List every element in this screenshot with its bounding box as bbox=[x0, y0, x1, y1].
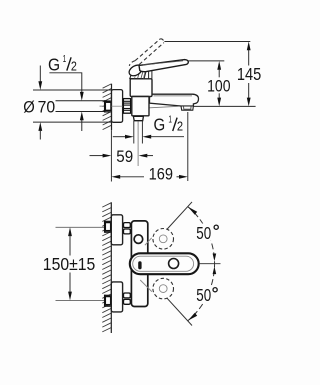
svg-text:2: 2 bbox=[177, 119, 183, 134]
aerator cup bbox=[181, 106, 193, 110]
wall face line (plan view) bbox=[110, 202, 112, 333]
outlet pipe lines bbox=[133, 121, 135, 144]
lever knob (side view) bbox=[127, 63, 144, 78]
union nut in wall (side view) bbox=[105, 100, 111, 112]
leader G1/2 top-left bbox=[49, 73, 81, 92]
cartridge dome (side view) bbox=[130, 68, 147, 79]
dimension Ø70 extension lines bbox=[33, 89, 112, 91]
text mask bottom 50° bbox=[195, 287, 221, 304]
arc arrowhead bottom bbox=[188, 313, 197, 321]
escutcheon bottom (plan view) bbox=[111, 282, 122, 312]
svg-text:G: G bbox=[48, 54, 60, 74]
label G1/2 top-left bbox=[48, 54, 77, 74]
lever raised position (phantom, dashed) bbox=[129, 39, 164, 66]
spout lower contour bbox=[150, 106, 179, 108]
dimension Ø70 arrows bbox=[39, 66, 41, 83]
connector nut with ridges (side view) bbox=[123, 99, 130, 114]
stray grey stroke upper bbox=[145, 238, 152, 245]
screw hole circle bbox=[134, 235, 143, 244]
svg-text:Ø: Ø bbox=[23, 97, 35, 116]
wall face extension line down to dimension rows bbox=[110, 130, 112, 181]
dimension 100 bbox=[217, 61, 221, 70]
svg-text:2: 2 bbox=[71, 58, 77, 73]
dimension 150±15 bbox=[68, 227, 72, 236]
dimension 59 bbox=[90, 155, 104, 157]
faucet body (plan view) bbox=[131, 221, 147, 307]
lever handle (side view, solid) bbox=[139, 60, 188, 72]
lever pivot circle bbox=[169, 259, 179, 269]
pipe axis centerline bbox=[100, 105, 132, 107]
radial line top (50° position) bbox=[167, 202, 192, 230]
hourglass arrow lower bbox=[213, 266, 217, 274]
hourglass arrow upper bbox=[213, 254, 217, 262]
text mask top 50° bbox=[195, 224, 221, 241]
supply pipe (G1/2 inlet) bbox=[56, 100, 106, 102]
svg-text:100: 100 bbox=[207, 76, 230, 95]
svg-text:50: 50 bbox=[196, 223, 211, 243]
rotation arc (dash-dot) bbox=[188, 206, 215, 321]
faucet body upper block (side view) bbox=[130, 79, 152, 97]
spout top inner line bbox=[154, 95, 193, 97]
svg-text:1: 1 bbox=[168, 114, 172, 125]
connector nut top (plan view) bbox=[124, 223, 131, 234]
union nut top (plan view) bbox=[105, 221, 111, 233]
dimension 169 bbox=[111, 175, 120, 179]
cartridge neck bbox=[148, 71, 150, 79]
extension line lever top (for 100) bbox=[188, 60, 224, 62]
extension line raised lever top (for 145) bbox=[164, 41, 250, 43]
svg-text:1: 1 bbox=[63, 54, 67, 65]
stray grey stroke lower bbox=[140, 280, 152, 292]
svg-text:59: 59 bbox=[116, 147, 133, 166]
escutcheon top (plan view) bbox=[111, 215, 122, 245]
wall hatching (plan view) bbox=[102, 203, 111, 332]
lever inner contour bbox=[133, 256, 194, 271]
wall face line (side view) bbox=[111, 84, 113, 131]
outlet collar below body bbox=[133, 116, 143, 120]
svg-text:150±15: 150±15 bbox=[43, 254, 96, 274]
svg-text:145: 145 bbox=[237, 65, 261, 84]
extension line spout outlet (for 100/145) bbox=[194, 105, 256, 107]
phantom knob circle bottom (dashed) bbox=[153, 278, 174, 299]
arrow G1/2 down bbox=[80, 92, 84, 101]
arrow G1/2 up + tail bbox=[80, 112, 84, 121]
inlet centerline top bbox=[56, 226, 132, 228]
wall hatching (side view) bbox=[103, 84, 112, 130]
svg-text:50: 50 bbox=[196, 285, 211, 305]
svg-text:169: 169 bbox=[149, 165, 173, 184]
lever blade top highlight bbox=[143, 61, 183, 65]
union nut bottom (plan view) bbox=[105, 295, 111, 307]
connector nut bottom (plan view) bbox=[124, 293, 131, 304]
spout (side view) bbox=[150, 94, 199, 106]
outlet pipe centre extension line bbox=[137, 122, 139, 167]
lever handle (plan view, pill) bbox=[130, 253, 199, 274]
inlet centerline bottom bbox=[56, 299, 132, 301]
svg-text:70: 70 bbox=[38, 97, 56, 116]
label G1/2 lower bbox=[154, 114, 184, 134]
neutral position ray bbox=[199, 263, 221, 265]
dimension 145 bbox=[247, 42, 251, 51]
faucet body lower block (side view) bbox=[132, 97, 149, 116]
extension line outlet centre (for 169) bbox=[187, 112, 189, 181]
svg-text:G: G bbox=[154, 115, 166, 135]
phantom knob circle top (dashed) bbox=[153, 229, 174, 250]
arc arrowhead top bbox=[188, 207, 197, 215]
dimension G1/2 lower (outlet) bbox=[113, 136, 126, 138]
lever slot (dark) bbox=[138, 261, 141, 269]
escutcheon (side view) bbox=[112, 90, 123, 123]
radial line bottom (50° position) bbox=[167, 298, 192, 326]
